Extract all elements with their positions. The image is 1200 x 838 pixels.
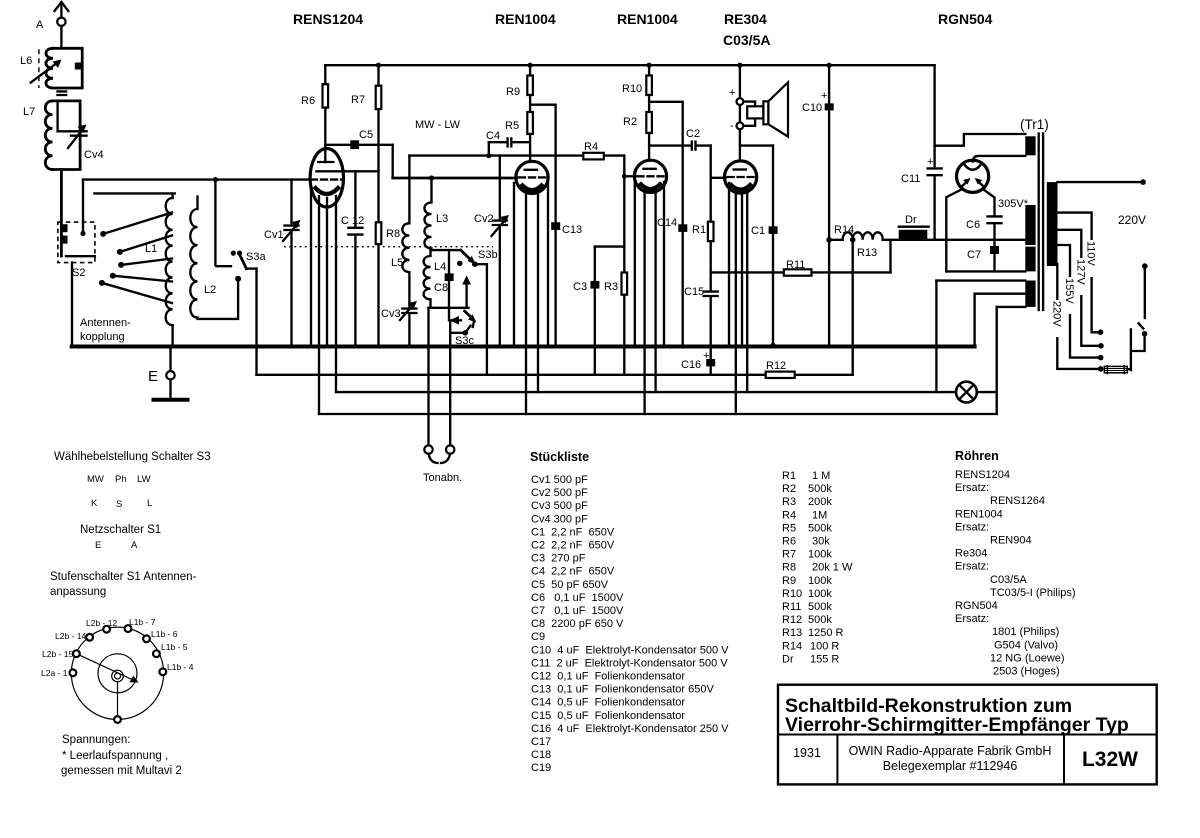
terminal E (earth) [148, 347, 188, 400]
svg-text:Ersatz:: Ersatz: [955, 613, 989, 625]
svg-text:Spannungen:: Spannungen: [62, 734, 130, 746]
resistor R13 (parallel loop) [857, 240, 891, 273]
resistor R9 [506, 65, 533, 112]
svg-text:1801 (Philips): 1801 (Philips) [992, 626, 1059, 638]
svg-text:C13: C13 [562, 224, 582, 236]
svg-text:C1 2,2 nF 650V: C1 2,2 nF 650V [531, 526, 615, 538]
svg-text:R3: R3 [604, 281, 618, 293]
capacitor C3 [573, 247, 599, 375]
capacitor Cv4 (variable) [58, 101, 104, 161]
tube U3 REN1004 [617, 11, 678, 192]
wire (rectifier cathode loop) [946, 190, 1025, 272]
choke Dr [899, 214, 929, 239]
svg-text:L2b - 15: L2b - 15 [42, 649, 73, 659]
node (heater/return bus 2) [257, 374, 853, 376]
switch S1 (mains) [1131, 263, 1148, 370]
loudspeaker [729, 65, 788, 136]
wire (C5 to V2 grid line) [392, 145, 394, 178]
svg-text:500k: 500k [808, 522, 832, 534]
resistor R8 [376, 222, 400, 346]
switch S3a [217, 251, 267, 269]
wire (R4 to V3 grid and R3) [622, 156, 627, 247]
resistor R7 [351, 65, 381, 222]
wire (L6 to L7 link dashes) [58, 91, 67, 95]
svg-text:220V: 220V [1050, 301, 1062, 327]
svg-text:1M: 1M [812, 509, 827, 521]
svg-text:C3 270 pF: C3 270 pF [531, 553, 586, 565]
svg-text:C2: C2 [686, 128, 700, 140]
svg-text:A: A [131, 540, 138, 551]
svg-text:S: S [116, 499, 122, 510]
wire (tank bottom line) [429, 307, 469, 309]
label resistor list [782, 470, 853, 665]
svg-text:RGN504: RGN504 [938, 11, 993, 27]
svg-text:R4: R4 [782, 509, 796, 521]
wire (L2 bottom loop to S3a throw contact) [198, 276, 242, 319]
label Stueckliste parts list [530, 450, 729, 774]
svg-text:C3: C3 [573, 281, 587, 293]
svg-text:C7: C7 [967, 249, 981, 261]
svg-text:Cv4: Cv4 [84, 149, 104, 161]
svg-text:Cv3: Cv3 [381, 308, 401, 320]
node (L1 tap fan to S2 contacts) [99, 213, 172, 304]
svg-text:R1: R1 [692, 224, 706, 236]
svg-text:Cv2 500 pF: Cv2 500 pF [531, 487, 588, 499]
svg-text:gemessen mit Multavi 2: gemessen mit Multavi 2 [61, 765, 182, 777]
node (B+ top rail) [325, 63, 934, 68]
resistor R11 [711, 259, 891, 276]
wire (V3 pins to buses) [635, 182, 664, 414]
wire (mains tap 127V) [1058, 230, 1104, 349]
node (S3c throw contact with arrow) [462, 276, 471, 308]
svg-text:C16: C16 [681, 359, 701, 371]
capacitor C12 (screen bypass) [341, 171, 364, 346]
svg-text:K: K [91, 498, 98, 509]
node (coupling line C4/R4 to V3 grid) [409, 153, 624, 158]
svg-text:C16 4 uF Elektrolyt-Kondensa: C16 4 uF Elektrolyt-Kondensator 250 V [531, 723, 729, 735]
svg-text:+: + [729, 87, 735, 99]
wire (ground bus riser to heater winding centre tap) [973, 294, 975, 347]
coil L5 (anode reaction coil) [391, 156, 409, 307]
capacitor C10 (electrolytic) [802, 65, 834, 346]
svg-text:C6: C6 [966, 219, 980, 231]
resistor R12 [766, 360, 795, 378]
svg-text:Cv1: Cv1 [264, 229, 284, 241]
svg-text:G504 (Valvo): G504 (Valvo) [994, 639, 1058, 651]
svg-text:C5: C5 [359, 129, 373, 141]
svg-text:200k: 200k [808, 496, 832, 508]
svg-text:C17: C17 [531, 736, 551, 748]
wire (S2 return to ground bus) [71, 263, 73, 347]
wire (S3a to heater bus) [255, 269, 257, 375]
svg-text:R2: R2 [623, 116, 637, 128]
svg-text:+: + [703, 350, 709, 362]
svg-text:R5: R5 [782, 522, 796, 534]
svg-text:Ersatz:: Ersatz: [955, 561, 989, 573]
wire (S3c to pickup terminal) [450, 321, 470, 446]
svg-text:1 M: 1 M [812, 470, 830, 482]
label 155V (rotated) [1063, 277, 1077, 314]
node (V2 grid line from C5) [393, 175, 517, 180]
svg-text:C9: C9 [531, 631, 545, 643]
svg-text:R14: R14 [782, 640, 802, 652]
switch S1 rotary diagram [41, 617, 194, 723]
svg-text:TC03/5-I (Philips): TC03/5-I (Philips) [990, 587, 1076, 599]
svg-text:RENS1264: RENS1264 [990, 495, 1045, 507]
svg-text:L2b - 14: L2b - 14 [55, 631, 86, 641]
title block [778, 685, 1157, 785]
svg-text:L: L [147, 498, 152, 509]
svg-text:R3: R3 [782, 496, 796, 508]
svg-text:RGN504: RGN504 [955, 600, 998, 612]
svg-text:REN904: REN904 [990, 535, 1032, 547]
resistor R6 [301, 65, 328, 162]
svg-text:R9: R9 [782, 575, 796, 587]
label 220V (rotated) [1050, 300, 1064, 337]
svg-text:Ersatz:: Ersatz: [955, 482, 989, 494]
svg-text:C15: C15 [684, 286, 704, 298]
svg-text:OWIN Radio-Apparate Fabrik Gmb: OWIN Radio-Apparate Fabrik GmbH [849, 744, 1052, 758]
svg-text:R6: R6 [301, 95, 315, 107]
svg-text:C8: C8 [434, 282, 448, 294]
svg-text:E: E [148, 368, 158, 385]
svg-text:R8: R8 [386, 228, 400, 240]
tube U1 RENS1204 [293, 11, 379, 207]
wire (choke output to filament winding) [935, 239, 1026, 241]
capacitor C2 [649, 128, 711, 150]
svg-text:155 R: 155 R [810, 653, 839, 665]
label tube list Roehren [955, 449, 1076, 678]
svg-text:20k 1 W: 20k 1 W [812, 562, 853, 574]
svg-text:Dr: Dr [782, 653, 794, 665]
wire (lamp to winding lead) [977, 391, 997, 393]
svg-text:L1b - 6: L1b - 6 [151, 629, 178, 639]
svg-text:R1: R1 [782, 470, 796, 482]
svg-text:C13 0,1 uF Folienkondensator: C13 0,1 uF Folienkondensator 650V [531, 684, 715, 696]
capacitor C1 [751, 146, 778, 348]
wire (antenna down-lead to S2) [60, 170, 63, 257]
resistor R2 [623, 112, 652, 161]
svg-text:Vierrohr-Schirmgitter-Empfänge: Vierrohr-Schirmgitter-Empfänger Typ [785, 714, 1129, 736]
svg-text:155V: 155V [1063, 278, 1075, 304]
capacitor Cv3 (variable) [381, 301, 417, 347]
wire (inner rail to L1 top) [94, 193, 174, 198]
svg-text:S3b: S3b [478, 249, 498, 261]
svg-text:R7: R7 [351, 94, 365, 106]
svg-text:C19: C19 [531, 762, 551, 774]
wire (mains tap 155V) [1058, 245, 1104, 360]
svg-text:REN1004: REN1004 [955, 508, 1003, 520]
svg-text:100k: 100k [808, 575, 832, 587]
tube U2 REN1004 [495, 11, 556, 193]
svg-text:R14: R14 [834, 224, 854, 236]
switch S3b [431, 249, 497, 267]
fuse [1104, 365, 1131, 374]
svg-text:305V*: 305V* [998, 198, 1029, 210]
svg-text:500k: 500k [808, 614, 832, 626]
svg-text:RENS1204: RENS1204 [293, 11, 363, 27]
wire (V2 pins to buses) [514, 183, 548, 414]
wire (rectifier filament top lead) [973, 156, 1026, 162]
svg-text:R13: R13 [782, 627, 802, 639]
node (chassis dotted line) [284, 246, 493, 248]
antenna terminal A [36, 2, 68, 48]
capacitor C8 [434, 250, 454, 308]
svg-text:Dr: Dr [905, 214, 917, 226]
wire (mains tap 220V) [1057, 264, 1103, 372]
node (heater bus 3) [336, 391, 956, 393]
wire (V4 pins to buses) [729, 183, 747, 414]
tube U4 RE304 [711, 11, 771, 193]
svg-text:Cv3 500 pF: Cv3 500 pF [531, 500, 588, 512]
svg-text:S3a: S3a [246, 251, 266, 263]
svg-text:100 R: 100 R [810, 640, 839, 652]
svg-text:C7 0,1 uF 1500V: C7 0,1 uF 1500V [531, 605, 624, 617]
svg-text:MW: MW [87, 474, 104, 485]
svg-text:100k: 100k [808, 549, 832, 561]
svg-text:R5: R5 [505, 120, 519, 132]
resistor R5 [505, 112, 533, 162]
svg-text:L5: L5 [391, 257, 403, 269]
svg-text:1931: 1931 [793, 746, 821, 760]
svg-text:Stufenschalter S1 Antennen-: Stufenschalter S1 Antennen- [50, 571, 197, 583]
svg-text:R7: R7 [782, 549, 796, 561]
transformer Tr1 [1020, 117, 1058, 310]
svg-text:R10: R10 [622, 83, 642, 95]
capacitor C16 (electrolytic) [681, 347, 715, 375]
svg-text:Antennen-: Antennen- [80, 317, 131, 329]
svg-text:Ersatz:: Ersatz: [955, 521, 989, 533]
capacitor C11 (electrolytic) [901, 65, 942, 240]
capacitor Cv2 (variable) [474, 156, 509, 347]
svg-text:C03/5A: C03/5A [990, 574, 1027, 586]
terminal Tonabn (pick-up) [423, 308, 462, 484]
node (main ground bus) [72, 345, 975, 349]
svg-text:L3: L3 [436, 213, 448, 225]
capacitor C15 [684, 286, 718, 347]
svg-text:C6 0,1 uF 1500V: C6 0,1 uF 1500V [531, 592, 624, 604]
svg-text:C12 0,1 uF Folienkondensator: C12 0,1 uF Folienkondensator [531, 671, 685, 683]
svg-text:R12: R12 [782, 614, 802, 626]
svg-text:L7: L7 [23, 106, 35, 118]
svg-text:+: + [927, 156, 933, 168]
wire (speaker to V4 anode node) [740, 129, 773, 160]
capacitor C5 (coupling) [325, 129, 392, 149]
svg-text:C14 0,5 uF Folienkondensator: C14 0,5 uF Folienkondensator [531, 697, 685, 709]
wire (R4 node to C3/R3) [595, 245, 625, 247]
svg-text:C18: C18 [531, 749, 551, 761]
svg-text:220V: 220V [1118, 213, 1146, 227]
svg-text:Cv1 500 pF: Cv1 500 pF [531, 474, 588, 486]
wire (mains tap top) [1058, 179, 1146, 185]
svg-text:C10: C10 [802, 102, 822, 114]
wire (rectifier anode feed) [935, 134, 1026, 146]
svg-text:12 NG (Loewe): 12 NG (Loewe) [990, 652, 1065, 664]
label 110V (rotated) [1084, 240, 1098, 277]
svg-text:* Leerlaufspannung ,: * Leerlaufspannung , [62, 750, 168, 762]
svg-text:L1b - 4: L1b - 4 [167, 662, 194, 672]
svg-text:E: E [95, 540, 101, 551]
resistor R4 [583, 141, 604, 159]
svg-text:Re304: Re304 [955, 548, 987, 560]
svg-text:R4: R4 [584, 141, 598, 153]
svg-text:L1: L1 [145, 243, 157, 255]
capacitor C14 [649, 102, 687, 347]
svg-text:R10: R10 [782, 588, 802, 600]
svg-text:C 12: C 12 [341, 215, 364, 227]
svg-text:R11: R11 [782, 601, 801, 613]
svg-text:L1b - 7: L1b - 7 [129, 617, 156, 627]
svg-text:Röhren: Röhren [955, 449, 999, 463]
svg-text:Tonabn.: Tonabn. [423, 472, 462, 484]
switch S2 (antenna tap selector) [58, 222, 95, 279]
svg-text:REN1004: REN1004 [617, 11, 678, 27]
wire (contact stub from rail) [80, 180, 85, 236]
svg-text:C14: C14 [657, 217, 677, 229]
svg-text:-: - [730, 120, 734, 132]
capacitor C4 [486, 130, 530, 156]
svg-text:S2: S2 [72, 267, 85, 279]
svg-text:C2 2,2 nF 650V: C2 2,2 nF 650V [531, 540, 615, 552]
svg-text:R13: R13 [857, 247, 877, 259]
svg-text:MW - LW: MW - LW [415, 119, 461, 131]
resistor R1 [692, 146, 714, 292]
svg-text:A: A [36, 19, 44, 31]
svg-text:Stückliste: Stückliste [530, 450, 589, 464]
wire (S3b down to buses) [486, 264, 488, 375]
svg-text:500k: 500k [808, 483, 832, 495]
coil L2 (coupling coil) [190, 197, 216, 318]
wire (R12 riser) [852, 240, 854, 375]
node (grid feed rail from coil box to tube V1 grid) [83, 178, 310, 180]
svg-text:C03/5A: C03/5A [723, 32, 770, 48]
svg-text:2503 (Hoges): 2503 (Hoges) [993, 666, 1060, 678]
coil L6 (variable antenna coupling coil) [20, 48, 83, 88]
svg-text:Belegexemplar #112946: Belegexemplar #112946 [883, 759, 1018, 773]
svg-text:+: + [821, 90, 827, 102]
svg-text:(Tr1): (Tr1) [1020, 117, 1049, 132]
svg-text:C4: C4 [486, 130, 500, 142]
wire (mains tap 110V) [1058, 213, 1104, 336]
svg-text:RE304: RE304 [724, 11, 767, 27]
svg-text:L2: L2 [204, 284, 216, 296]
svg-text:Netzschalter S1: Netzschalter S1 [80, 524, 161, 536]
svg-text:Wählhebelstellung Schalter S3: Wählhebelstellung Schalter S3 [54, 451, 211, 463]
svg-text:C5 50 pF 650V: C5 50 pF 650V [531, 579, 609, 591]
switch S3c [449, 308, 477, 347]
svg-text:C15 0,5 uF Folienkondensator: C15 0,5 uF Folienkondensator [531, 710, 685, 722]
svg-text:R12: R12 [766, 360, 786, 372]
svg-text:Cv4 300 pF: Cv4 300 pF [531, 513, 588, 525]
svg-text:R8: R8 [782, 562, 796, 574]
svg-text:500k: 500k [808, 601, 832, 613]
node (heater bus 4) [319, 413, 997, 415]
capacitor Cv1 (variable, grid tuning) [264, 180, 301, 347]
svg-text:Cv2: Cv2 [474, 213, 494, 225]
resistor R10 [622, 65, 652, 112]
svg-text:kopplung: kopplung [80, 331, 125, 343]
svg-text:Ph: Ph [115, 474, 127, 485]
svg-text:LW: LW [137, 474, 151, 485]
svg-text:C4 2,2 nF 650V: C4 2,2 nF 650V [531, 566, 615, 578]
label switch position table S3 [54, 451, 211, 510]
svg-text:C11 2 uF Elektrolyt-Kondensa: C11 2 uF Elektrolyt-Kondensator 500 V [531, 657, 728, 669]
capacitor C13 [530, 105, 582, 347]
svg-text:C8 2200 pF 650 V: C8 2200 pF 650 V [531, 618, 624, 630]
resistor R3 [604, 247, 627, 375]
svg-text:L2a - 1: L2a - 1 [41, 668, 68, 678]
svg-text:100k: 100k [808, 588, 832, 600]
svg-text:C1: C1 [751, 225, 765, 237]
svg-text:anpassung: anpassung [50, 586, 106, 598]
lamp (dial light) [956, 382, 977, 403]
svg-text:L2b - 12: L2b - 12 [86, 618, 117, 628]
svg-text:L6: L6 [20, 55, 32, 67]
wire (heater winding taps) [936, 281, 1025, 414]
capacitor C6 [966, 216, 1002, 246]
coil L4 [424, 250, 447, 308]
label Netzschalter S1 [80, 524, 161, 551]
resistor R14 (wirewound, drawn as coil) [826, 224, 882, 243]
svg-text:1250 R: 1250 R [808, 627, 844, 639]
svg-text:L4: L4 [434, 261, 446, 273]
capacitor C7 [967, 246, 999, 271]
wire (V1 pins to buses) [311, 190, 336, 414]
wire (rail to S3a) [214, 180, 216, 266]
coil L3 [424, 178, 448, 250]
svg-text:R11: R11 [786, 259, 805, 271]
wire (R14 to choke) [883, 239, 935, 241]
svg-text:C10 4 uF Elektrolyt-Kondensa: C10 4 uF Elektrolyt-Kondensator 500 V [531, 644, 729, 656]
svg-text:RENS1204: RENS1204 [955, 469, 1010, 481]
coil L1 (tapped tuning coil) [145, 198, 173, 325]
svg-text:R6: R6 [782, 536, 796, 548]
tube U5 RGN504 (rectifier) [938, 11, 993, 192]
svg-text:L1b - 5: L1b - 5 [161, 642, 188, 652]
label 127V (rotated) [1074, 258, 1088, 295]
svg-text:C11: C11 [901, 173, 920, 185]
svg-text:REN1004: REN1004 [495, 11, 556, 27]
svg-text:R9: R9 [506, 86, 520, 98]
label Stufenschalter S1 [50, 571, 197, 598]
label Spannungen note [61, 734, 182, 777]
wire (L1 bottom to bus and E) [171, 325, 173, 346]
coil L7 [23, 101, 80, 170]
svg-text:L32W: L32W [1082, 748, 1138, 771]
svg-text:30k: 30k [812, 536, 830, 548]
svg-text:R2: R2 [782, 483, 796, 495]
